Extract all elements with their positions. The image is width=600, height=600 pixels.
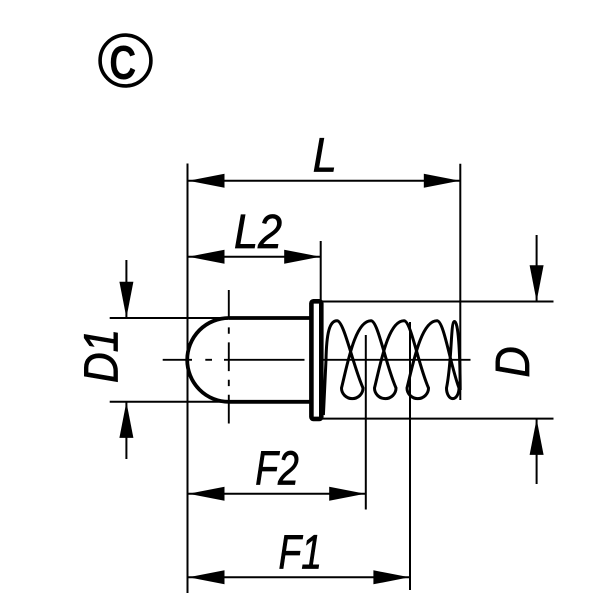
dimension D1 arrow top [119, 282, 133, 318]
vertical centerline [228, 290, 230, 428]
spring coil [323, 321, 460, 415]
dimension L2 arrow right [284, 250, 320, 264]
dimension F1 line [188, 576, 410, 578]
dimension L arrow right [424, 174, 460, 188]
dimension F1 arrow left [189, 570, 225, 584]
view label circle C [100, 35, 151, 86]
dimension D1 arrow bottom [119, 402, 133, 438]
svg-text:D: D [486, 346, 540, 377]
horizontal centerline [163, 359, 471, 361]
flange collar [311, 301, 321, 419]
dimension D1 line bottom segment [125, 402, 127, 459]
dimension D line top segment [536, 235, 538, 301]
dimension F2 arrow left [189, 487, 225, 501]
dimension D extension line top [322, 301, 554, 303]
dimension F2 arrow right [329, 487, 365, 501]
plunger pin bottom edge [229, 400, 312, 404]
svg-text:F2: F2 [255, 442, 299, 496]
svg-text:F1: F1 [279, 526, 322, 580]
plunger pin top edge [229, 316, 312, 320]
extension line right of L (body right end) [459, 164, 461, 400]
dimension F2 line [188, 493, 365, 495]
extension line right of F2 [365, 335, 367, 510]
dimension D1 extension line top [110, 317, 231, 319]
dimension D1 line top segment [125, 260, 127, 318]
svg-text:L: L [313, 129, 337, 183]
dimension L2 arrow left [189, 250, 225, 264]
dimension D arrow bottom [530, 419, 544, 455]
dimension L arrow left [189, 174, 225, 188]
dimension L line [188, 180, 460, 182]
dimension D arrow top [530, 265, 544, 301]
svg-text:D1: D1 [74, 329, 128, 383]
dimension D line bottom segment [536, 419, 538, 484]
plunger dome end [187, 318, 229, 402]
svg-text:L2: L2 [234, 205, 282, 259]
svg-text:C: C [109, 37, 136, 91]
extension line right of L2 (flange right face) [320, 241, 322, 300]
dimension D extension line bottom [322, 418, 554, 420]
dimension F1 arrow right [373, 570, 409, 584]
dimension D1 extension line bottom [110, 401, 231, 403]
extension line right of F1 [409, 322, 411, 590]
dimension L2 line [188, 256, 320, 258]
extension line left (common for L, L2, F2, F1 at dome tip) [187, 164, 189, 594]
